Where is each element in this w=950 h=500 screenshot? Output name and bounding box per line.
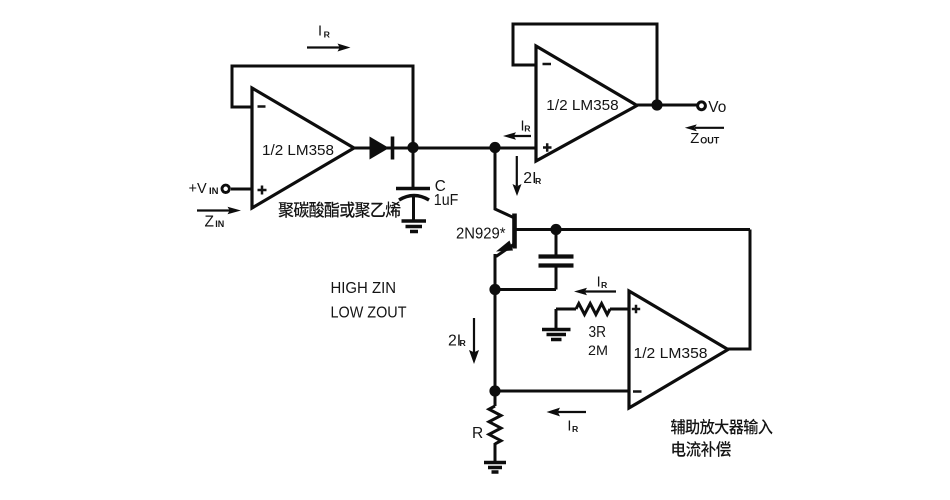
- svg-text:R: R: [535, 176, 542, 186]
- svg-text:Z: Z: [690, 131, 699, 147]
- svg-text:R: R: [472, 425, 483, 442]
- svg-text:Z: Z: [205, 213, 214, 230]
- svg-text:1/2 LM358: 1/2 LM358: [262, 143, 334, 159]
- svg-text:1/2 LM358: 1/2 LM358: [634, 345, 708, 362]
- svg-text:1/2 LM358: 1/2 LM358: [546, 98, 618, 114]
- svg-text:Vo: Vo: [708, 99, 726, 116]
- svg-text:2M: 2M: [588, 342, 608, 358]
- svg-text:2N929*: 2N929*: [456, 225, 506, 242]
- svg-text:I: I: [318, 23, 322, 39]
- svg-text:R: R: [601, 280, 608, 290]
- svg-text:LOW ZOUT: LOW ZOUT: [331, 304, 407, 321]
- svg-text:R: R: [324, 29, 331, 39]
- svg-text:R: R: [524, 124, 531, 134]
- svg-text:3R: 3R: [589, 324, 607, 341]
- svg-text:R: R: [460, 338, 467, 348]
- svg-text:OUT: OUT: [700, 136, 720, 146]
- svg-text:IN: IN: [209, 186, 219, 197]
- svg-text:HIGH ZIN: HIGH ZIN: [331, 280, 397, 297]
- svg-text:+V: +V: [189, 181, 207, 197]
- svg-text:I: I: [567, 419, 571, 435]
- svg-text:IN: IN: [215, 219, 224, 229]
- svg-text:R: R: [572, 424, 579, 434]
- svg-text:1uF: 1uF: [434, 192, 459, 209]
